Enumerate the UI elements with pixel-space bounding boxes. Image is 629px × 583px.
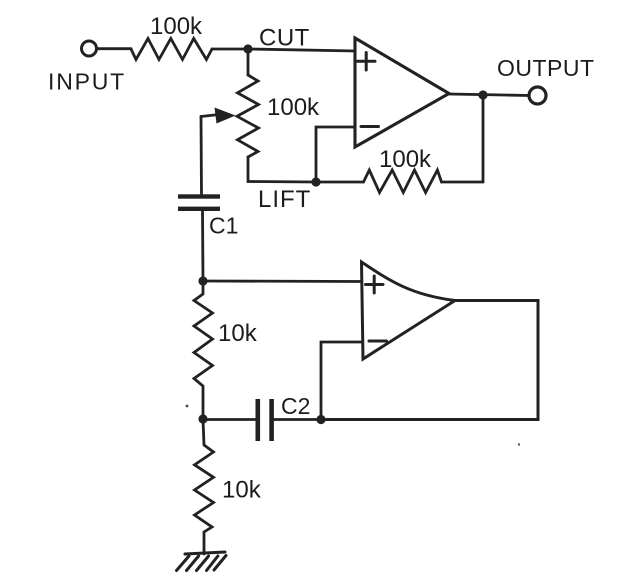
wire C2 to node C (274, 418, 321, 421)
svg-text:OUTPUT: OUTPUT (497, 55, 595, 81)
node C junction dot (316, 415, 325, 424)
wire R1 to node CUT (212, 48, 248, 51)
svg-text:CUT: CUT (259, 25, 310, 52)
wire LIFT to feedback resistor (316, 181, 364, 184)
wire CUT down to potentiometer (247, 49, 250, 75)
wire pot bottom (248, 157, 316, 182)
svg-text:100k: 100k (379, 146, 432, 173)
wire node B to C2 (203, 418, 255, 421)
svg-text:100k: 100k (267, 94, 320, 121)
resistor R1 100k (131, 39, 212, 60)
capacitor C1 (178, 194, 220, 211)
svg-text:LIFT: LIFT (258, 186, 311, 213)
pot wiper arrow (201, 108, 236, 124)
wire U2 output feedback loop (325, 301, 538, 420)
wire wiper down to C1 (200, 117, 203, 196)
wire output column vertical (482, 95, 485, 182)
U2 plus sign (366, 276, 384, 293)
resistor R4 10k upper (194, 281, 213, 419)
resistor R5 10k lower (195, 420, 214, 555)
U1 plus sign (358, 53, 376, 71)
terminal INPUT (82, 41, 97, 56)
svg-text:C2: C2 (281, 393, 310, 419)
capacitor C2 (256, 399, 274, 441)
svg-text:10k: 10k (222, 477, 262, 504)
wire node A to op-amp U2 plus input (203, 280, 362, 283)
terminal OUTPUT (529, 87, 546, 104)
node CUT junction dot (243, 44, 252, 53)
wire U1 minus input to LIFT (316, 127, 355, 182)
wire node CUT to op-amp U1 plus input (248, 49, 356, 51)
svg-text:INPUT: INPUT (48, 69, 126, 95)
resistor R3 100k feedback (364, 170, 442, 193)
svg-text:C1: C1 (209, 213, 238, 239)
op-amp U1 (355, 38, 449, 147)
wire C1 to node A (201, 211, 204, 281)
U2 minus sign (369, 340, 387, 343)
wire U1 output to terminal (449, 94, 529, 96)
wire input to R1 (97, 47, 131, 50)
op-amp U2 (362, 262, 456, 359)
potentiometer 100k body (237, 75, 259, 157)
node B junction dot (198, 414, 207, 423)
wire node C up to U2 minus input (321, 342, 362, 420)
speck (518, 443, 520, 445)
node LIFT junction dot (311, 177, 320, 186)
svg-text:10k: 10k (218, 320, 258, 347)
U1 minus sign (361, 125, 379, 128)
svg-text:100k: 100k (150, 13, 203, 40)
ground (177, 552, 227, 571)
speck (186, 405, 189, 408)
node output junction dot (478, 90, 487, 99)
wire feedback resistor to output column (442, 181, 484, 184)
node A junction dot (198, 276, 207, 285)
